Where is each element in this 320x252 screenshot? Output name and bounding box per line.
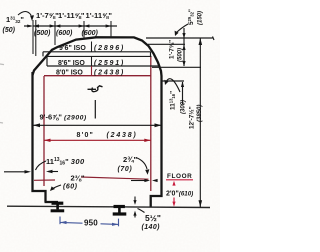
svg-text:(600): (600)	[56, 30, 73, 37]
ISO row line 8'6 bottom	[47, 65, 159, 67]
ISO row left verticals	[43, 52, 151, 66]
right small dim line x184	[183, 28, 185, 66]
right main dim line 12'-7 1/2	[199, 38, 201, 207]
svg-text:13132": 13132"	[6, 15, 24, 24]
small down arrow above rail2 right	[134, 197, 136, 202]
tunnel left wall lower	[33, 72, 59, 202]
svg-text:8'0" ISO: 8'0" ISO	[56, 70, 83, 77]
red floor line left segment	[34, 179, 55, 181]
svg-text:(60): (60)	[63, 183, 78, 190]
small up arrow below rail2 right	[134, 214, 136, 218]
svg-text:1'-11⅝": 1'-11⅝"	[86, 11, 113, 20]
svg-text:(50): (50)	[3, 27, 16, 34]
leader for (60)	[52, 185, 61, 189]
svg-text:(300): (300)	[181, 100, 187, 114]
right ref line y81	[162, 80, 185, 82]
red 8'0 ISO top line	[44, 75, 151, 77]
leader from (50) label	[18, 12, 31, 16]
right ref line y67	[152, 66, 201, 68]
top dim arrowheads	[27, 24, 111, 27]
leader	[36, 161, 47, 170]
ground line	[7, 206, 210, 207]
left edge arrow	[4, 171, 28, 173]
svg-text:1'-11⅝": 1'-11⅝"	[58, 11, 85, 20]
svg-text:52932": 52932"	[187, 9, 195, 25]
svg-text:FLOOR: FLOOR	[167, 173, 192, 180]
small dim arrows at 70 gap	[131, 180, 145, 182]
right ref line y44	[148, 43, 185, 45]
centerline vertical	[94, 100, 96, 119]
blue gauge dim 950	[60, 217, 119, 227]
scan smudge marks left edge	[0, 64, 4, 123]
svg-text:(500): (500)	[178, 48, 184, 62]
svg-text:5½": 5½"	[145, 213, 161, 223]
svg-text:(140): (140)	[142, 224, 161, 231]
svg-text:8'0": 8'0"	[77, 132, 95, 139]
svg-text:1'-7⅝": 1'-7⅝"	[169, 40, 176, 59]
svg-text:(2438): (2438)	[94, 70, 125, 77]
floor down arrow	[173, 198, 175, 204]
ISO row column dividers	[91, 42, 93, 67]
red floor line right segment	[81, 177, 149, 179]
top dimension line	[24, 25, 117, 27]
svg-text:(2896): (2896)	[94, 45, 125, 52]
svg-text:9'-6⅞": 9'-6⅞"	[40, 113, 63, 122]
ISO row line 8'6 top	[47, 55, 152, 57]
svg-text:8'6" ISO: 8'6" ISO	[58, 60, 85, 67]
right crown ref line	[146, 37, 214, 41]
svg-text:9'6" ISO: 9'6" ISO	[59, 45, 86, 52]
ISO row line 9'6 bottom	[43, 51, 151, 53]
svg-text:(2900): (2900)	[64, 115, 87, 122]
leader arc for 300	[166, 79, 180, 92]
leader for 150	[176, 24, 188, 33]
svg-text:111316" 300: 111316" 300	[46, 157, 85, 167]
centerline symbol	[88, 86, 103, 92]
leader for (70)	[136, 158, 147, 170]
top extension lines	[33, 20, 111, 56]
arrow pointing left to red edge	[48, 171, 58, 173]
svg-text:(2591): (2591)	[94, 60, 125, 67]
svg-text:(500): (500)	[34, 30, 51, 37]
svg-text:1'-7⅝": 1'-7⅝"	[36, 11, 59, 20]
red container envelope left edge	[43, 76, 45, 186]
red container envelope right edge	[150, 57, 152, 191]
rail right	[113, 205, 127, 216]
svg-text:(150): (150)	[198, 11, 204, 25]
tunnel outline	[33, 37, 162, 207]
floor up arrow	[172, 181, 175, 186]
svg-text:950: 950	[84, 219, 98, 228]
rail left	[51, 202, 65, 213]
leader for 140	[138, 209, 145, 213]
svg-text:(70): (70)	[118, 166, 133, 173]
svg-text:(3850): (3850)	[197, 105, 203, 122]
svg-text:12'-7½": 12'-7½"	[188, 106, 196, 129]
svg-text:2¾": 2¾"	[123, 155, 138, 164]
svg-text:(2438): (2438)	[107, 132, 138, 139]
svg-text:2⅜": 2⅜"	[71, 174, 86, 183]
svg-text:2'0"(610): 2'0"(610)	[166, 191, 193, 198]
svg-text:(600): (600)	[82, 30, 99, 37]
right dim x182 for 300	[182, 82, 184, 104]
